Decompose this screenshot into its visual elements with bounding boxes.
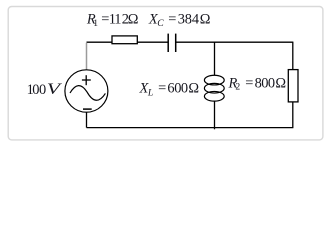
svg-text:XL=600Ω: XL=600Ω [139,80,200,98]
wire top-left to R1 [87,41,113,43]
wire R1 to capacitor [137,41,168,43]
resistor R1 [112,36,137,44]
wire source bottom stub [86,112,88,127]
wire right side lower (R2 to corner) [292,102,294,128]
AC source U [65,70,108,112]
wire inductor branch top [214,42,216,75]
svg-text:R2=800Ω: R2=800Ω [228,76,287,93]
source sine wave [70,86,105,101]
svg-text:XC=384Ω: XC=384Ω [148,12,211,30]
svg-text:R1=112Ω: R1=112Ω [86,12,139,30]
capacitor C (X_C) [168,34,176,52]
source minus sign [83,108,92,110]
wire inductor branch bottom [214,101,216,130]
wire right side upper (corner to R2) [292,42,294,70]
source plus sign [82,75,91,85]
wire bottom [87,127,294,129]
svg-text:100: 100 [27,82,47,98]
inductor L (X_L) coil [204,75,224,101]
wire capacitor to top-right corner [176,41,293,43]
card frame [8,7,323,140]
resistor R2 [288,70,298,102]
wire source top stub (gray) [86,43,88,70]
